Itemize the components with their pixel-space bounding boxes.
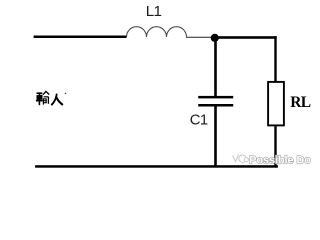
wire right vertical upper — [274, 36, 276, 81]
inductor L1 — [127, 27, 187, 37]
wire junction to top-right corner — [217, 36, 277, 39]
watermark icon — [233, 155, 249, 163]
label input 入 strokes — [51, 94, 63, 106]
capacitor C1 bottom plate — [198, 104, 233, 107]
svg-text:L1: L1 — [146, 3, 162, 20]
node junction dot — [211, 34, 219, 42]
label input 输入 (drawn strokes) — [36, 91, 49, 105]
svg-text:Possible Do: Possible Do — [249, 154, 311, 166]
wire capacitor bottom lead — [214, 107, 217, 167]
svg-text:C1: C1 — [190, 113, 208, 129]
svg-text:RL: RL — [290, 94, 310, 111]
wire top input segment — [34, 36, 127, 39]
resistor RL — [268, 82, 284, 126]
wire resistor bottom lead — [274, 126, 276, 167]
wire capacitor top lead — [214, 40, 217, 96]
capacitor C1 top plate — [198, 96, 233, 99]
wire bottom return — [35, 165, 278, 168]
wire inductor to junction — [186, 37, 212, 38]
speck — [65, 93, 66, 94]
